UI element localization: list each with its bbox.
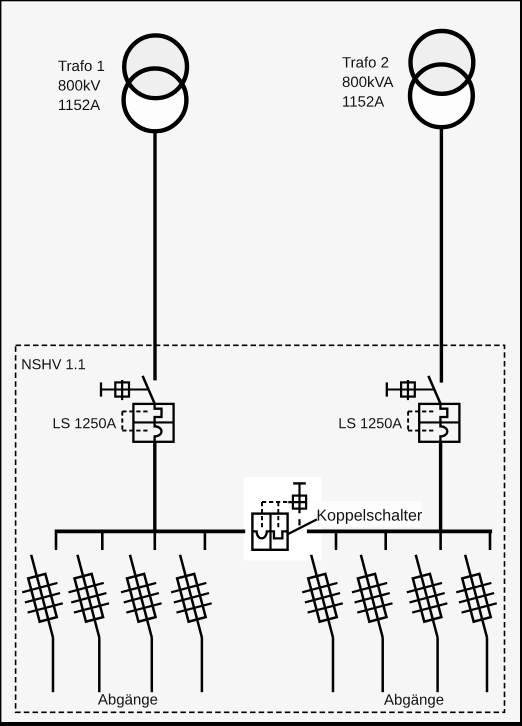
feeder wire A3 <box>151 638 154 693</box>
label 800kV <box>59 80 101 91</box>
wire T1 to breaker LS1 <box>153 130 156 380</box>
feeder wire B4 <box>486 638 489 693</box>
feeder stub B1 <box>335 530 338 551</box>
breaker body box LS2 <box>419 404 459 442</box>
feeder stub B2 <box>384 530 387 551</box>
feeder fuse-switch A3 <box>112 550 169 642</box>
feeder fuse-switch A4 <box>162 550 219 642</box>
wire LS2 to busbar B <box>439 442 442 533</box>
circuit breaker LS2 (right, LS 1250A) <box>387 376 460 442</box>
label Abgaenge right <box>384 694 443 708</box>
busbar A (left) <box>55 530 245 534</box>
wire T2 to breaker LS2 <box>440 126 443 383</box>
feeder wire A1 <box>52 638 55 693</box>
motor drive box LS1 <box>115 382 129 396</box>
label LS 1250A left <box>54 418 116 428</box>
terminal tick LS2 <box>386 382 388 396</box>
coupler trip linkage dashes <box>261 502 263 529</box>
feeder stub A2 <box>101 530 104 551</box>
coupler drive stem and tick <box>298 483 300 513</box>
label Trafo 2 <box>342 57 388 68</box>
feeder wire A4 <box>201 638 204 693</box>
wire LS1 to busbar A <box>153 442 156 533</box>
trip linkage dashed bracket LS1 <box>121 411 123 430</box>
motor drive box LS2 <box>401 382 415 396</box>
trip linkage dashed bracket LS2 <box>407 411 409 430</box>
feeder fuse-switch A1 <box>14 550 71 642</box>
coupler motor drive box <box>293 496 306 509</box>
transformer T2 (Trafo 2) <box>410 31 473 127</box>
circuit breaker LS1 (left, LS 1250A) <box>101 376 174 442</box>
feeder stub A3 <box>154 530 157 551</box>
coupler through contact path <box>252 531 287 538</box>
feeder stub A1 <box>55 530 58 551</box>
feeder wire B3 <box>436 638 439 693</box>
label Trafo 1 <box>58 60 104 71</box>
feeder fuse-switch B2 <box>343 550 400 642</box>
label NSHV 1.1 <box>22 359 85 369</box>
feeder stub A4 <box>204 530 207 551</box>
bus coupler Koppelschalter <box>252 483 317 549</box>
label 1152A left <box>59 100 100 111</box>
label 800kVA <box>343 76 394 87</box>
outer frame <box>0 0 522 1</box>
breaker inner contact path LS2 <box>440 404 447 442</box>
transformer T1 (Trafo 1) <box>124 35 187 131</box>
feeder stub B4 <box>489 530 492 551</box>
breaker inner contact path LS1 <box>155 404 162 442</box>
label 1152A right <box>343 96 384 107</box>
drive linkage line LS2 <box>387 389 434 391</box>
feeder wire A2 <box>98 638 101 693</box>
coupler switch blade / leader <box>288 519 317 534</box>
label Koppelschalter <box>318 509 422 524</box>
terminal tick LS1 <box>100 382 102 396</box>
white backdrop of coupler symbol <box>244 477 323 561</box>
feeder fuse-switch B3 <box>398 550 455 642</box>
busbar B (right) <box>307 530 492 534</box>
switch blade LS1 <box>143 376 156 405</box>
switch blade LS2 <box>428 376 441 405</box>
feeder fuse-switch B1 <box>294 550 351 642</box>
drive linkage line LS1 <box>101 389 148 391</box>
label LS 1250A right <box>340 418 403 428</box>
coupler body boxes <box>252 514 287 550</box>
white backdrop of Koppelschalter label <box>314 501 421 527</box>
feeder wire B2 <box>381 638 384 693</box>
feeder stub B3 <box>439 530 442 551</box>
cabinet NSHV 1.1 dashed enclosure <box>16 345 505 712</box>
label Abgaenge left <box>98 694 157 708</box>
feeder wire B1 <box>332 638 335 693</box>
feeder fuse-switch B4 <box>448 550 505 642</box>
breaker body box LS1 <box>133 404 173 442</box>
feeder fuse-switch A2 <box>60 550 117 642</box>
